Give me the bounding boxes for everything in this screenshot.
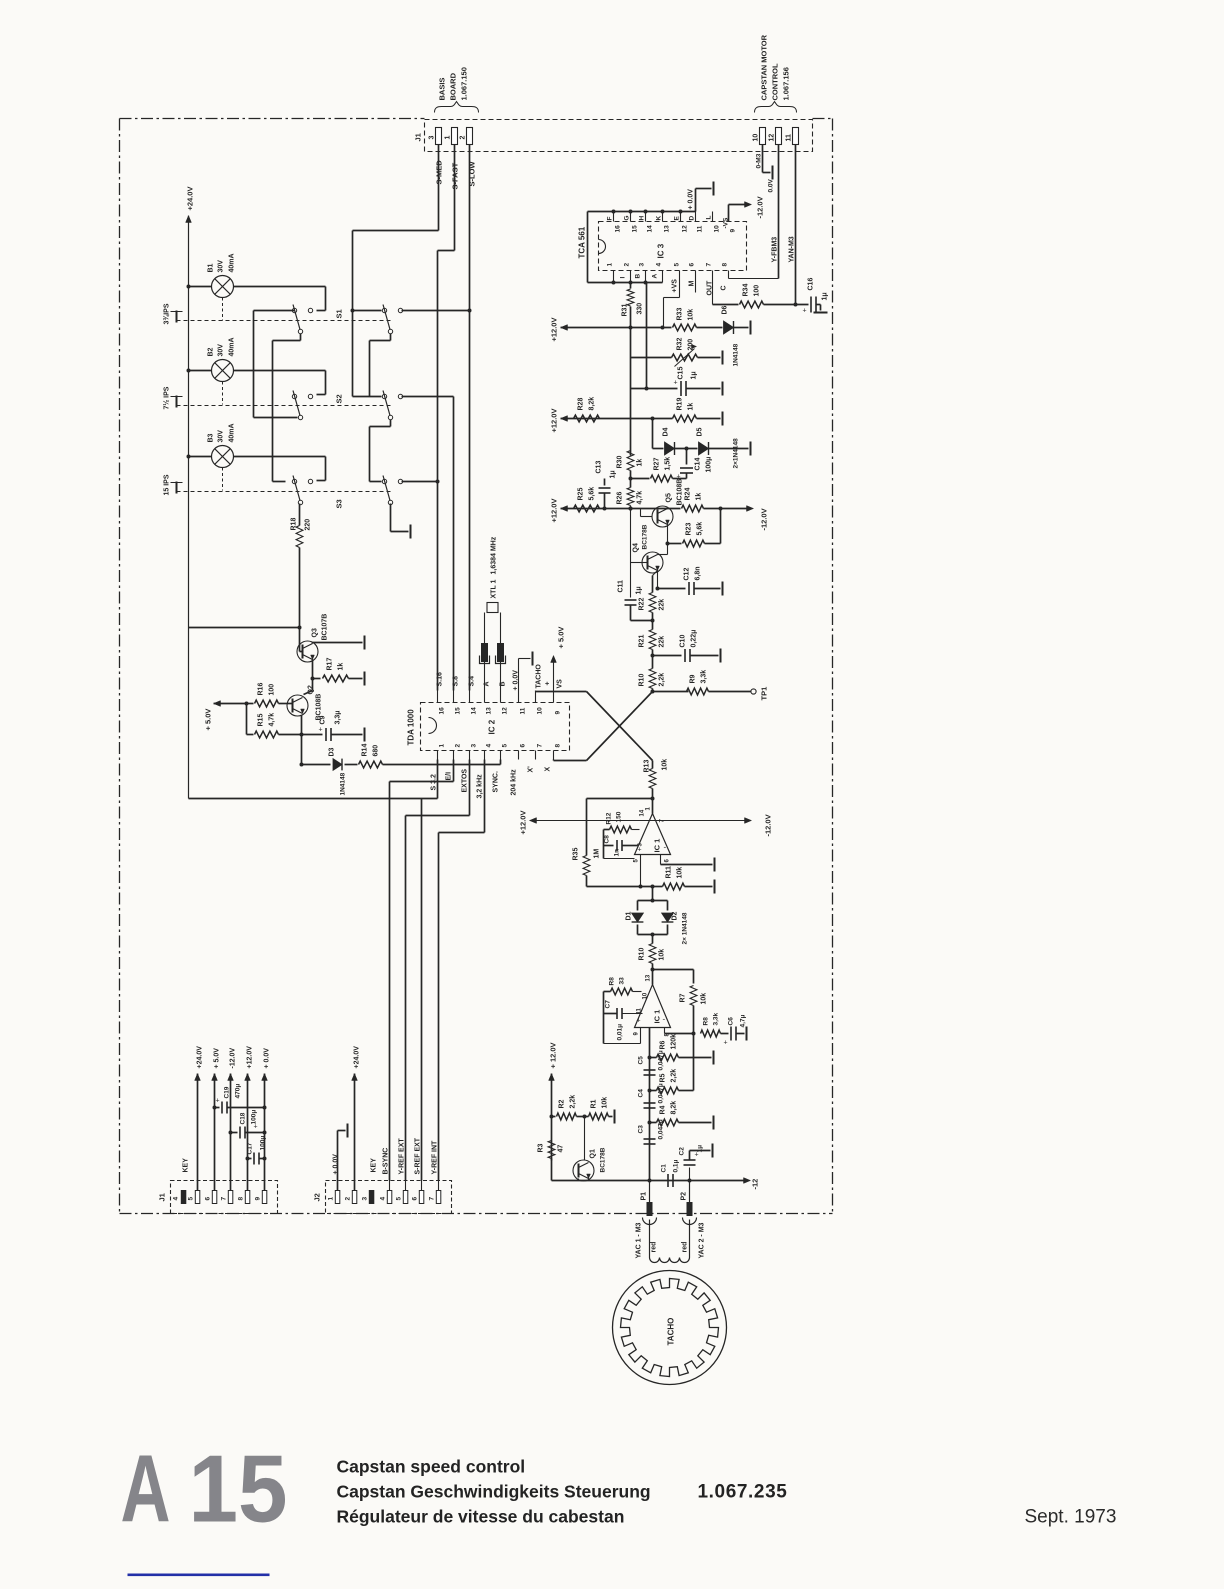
svg-text:R7: R7: [680, 993, 687, 1002]
svg-text:204 kHz: 204 kHz: [511, 769, 518, 796]
svg-text:3: 3: [362, 1197, 369, 1201]
svg-text:A: A: [121, 1436, 171, 1543]
svg-text:33: 33: [619, 977, 626, 985]
svg-text:+12.0V: +12.0V: [247, 1046, 254, 1069]
svg-text:B-SYNC: B-SYNC: [383, 1148, 390, 1175]
svg-text:D3: D3: [329, 747, 336, 756]
svg-text:330: 330: [637, 303, 644, 315]
svg-text:C8: C8: [604, 835, 611, 844]
svg-text:BC108B: BC108B: [677, 479, 684, 506]
svg-text:C18: C18: [240, 1112, 247, 1124]
svg-text:+24.0V: +24.0V: [197, 1046, 204, 1069]
svg-text:C5: C5: [638, 1056, 645, 1065]
svg-text:B: B: [500, 681, 507, 686]
svg-text:0,01μ: 0,01μ: [617, 1024, 624, 1041]
svg-text:C15: C15: [678, 367, 685, 380]
svg-text:+: +: [724, 1040, 728, 1047]
svg-text:+12.0V: +12.0V: [550, 409, 559, 433]
svg-text:+: +: [674, 380, 678, 387]
svg-text:B3: B3: [208, 433, 215, 442]
svg-text:R32: R32: [677, 338, 684, 351]
svg-text:9: 9: [730, 229, 737, 233]
svg-text:R23: R23: [686, 523, 693, 536]
svg-text:7: 7: [537, 744, 544, 748]
svg-text:-12.0V: -12.0V: [230, 1048, 237, 1069]
svg-text:KEY: KEY: [371, 1158, 378, 1173]
svg-text:YAN-M3: YAN-M3: [789, 236, 796, 262]
svg-text:R17: R17: [327, 658, 334, 671]
svg-text:+ 5.0V: + 5.0V: [214, 1048, 221, 1069]
svg-text:10: 10: [643, 992, 649, 999]
svg-text:-: -: [663, 1015, 666, 1024]
svg-text:+: +: [319, 727, 323, 734]
svg-text:6: 6: [412, 1197, 419, 1201]
svg-text:14: 14: [471, 707, 478, 715]
svg-text:12: 12: [769, 134, 776, 142]
svg-text:I: I: [620, 277, 627, 279]
svg-text:R30: R30: [617, 456, 624, 469]
svg-text:B: B: [635, 274, 642, 279]
svg-text:1M: 1M: [594, 849, 601, 859]
svg-text:R15: R15: [258, 714, 265, 727]
svg-text:+: +: [637, 1018, 641, 1025]
svg-text:OUT: OUT: [707, 280, 714, 296]
svg-text:1k: 1k: [637, 459, 644, 467]
svg-text:1N4148: 1N4148: [733, 343, 740, 366]
svg-text:4: 4: [380, 1197, 387, 1201]
svg-text:+12.0V: +12.0V: [550, 318, 559, 342]
svg-text:47: 47: [558, 1145, 565, 1153]
svg-text:VS: VS: [557, 679, 564, 689]
svg-text:+: +: [545, 681, 552, 685]
svg-text:6: 6: [205, 1197, 212, 1201]
svg-text:14: 14: [647, 225, 654, 233]
svg-text:5: 5: [188, 1197, 195, 1201]
svg-text:Y-FBM3: Y-FBM3: [772, 237, 779, 263]
svg-text:R28: R28: [578, 398, 585, 411]
svg-text:470μ: 470μ: [235, 1084, 242, 1099]
svg-text:10k: 10k: [662, 759, 669, 771]
svg-text:C9: C9: [320, 715, 327, 724]
svg-text:2: 2: [624, 263, 631, 267]
svg-text:0-M3: 0-M3: [756, 153, 763, 168]
svg-text:13: 13: [486, 707, 493, 715]
svg-text:Q1: Q1: [590, 1149, 597, 1158]
svg-text:10: 10: [753, 134, 760, 142]
svg-text:R6: R6: [660, 1040, 667, 1049]
svg-text:R13: R13: [644, 760, 651, 773]
svg-text:3,3k: 3,3k: [713, 1012, 720, 1025]
svg-text:3,3k: 3,3k: [701, 670, 708, 684]
svg-text:R22: R22: [639, 598, 646, 611]
svg-text:J2: J2: [313, 1193, 322, 1201]
svg-text:IC 1: IC 1: [653, 1010, 662, 1024]
svg-text:40mA: 40mA: [229, 253, 236, 272]
svg-text:10: 10: [714, 225, 721, 233]
svg-text:-: -: [664, 843, 667, 852]
svg-text:100: 100: [269, 684, 276, 696]
svg-text:15 IPS: 15 IPS: [164, 474, 171, 495]
svg-text:C6: C6: [728, 1017, 735, 1026]
svg-text:3: 3: [429, 136, 436, 140]
svg-text:1k: 1k: [696, 493, 703, 501]
svg-text:Capstan Geschwindigkeits Steue: Capstan Geschwindigkeits Steuerung: [337, 1482, 651, 1502]
svg-text:11: 11: [520, 707, 527, 714]
svg-text:R11: R11: [666, 866, 673, 879]
svg-text:R3: R3: [538, 1143, 545, 1152]
svg-text:S.4: S.4: [469, 676, 476, 687]
svg-text:R9: R9: [690, 674, 697, 683]
svg-text:120k: 120k: [671, 1034, 678, 1050]
svg-text:5: 5: [502, 744, 509, 748]
svg-text:2×1N4148: 2×1N4148: [733, 438, 740, 469]
svg-text:0,047μ: 0,047μ: [658, 1083, 665, 1103]
svg-text:C10: C10: [680, 635, 687, 648]
svg-text:TCA 561: TCA 561: [578, 226, 587, 258]
svg-text:S3: S3: [335, 499, 344, 508]
svg-text:15: 15: [189, 1436, 288, 1543]
svg-text:7: 7: [706, 263, 713, 267]
svg-text:7: 7: [221, 1197, 228, 1201]
svg-text:red: red: [651, 1242, 658, 1253]
svg-text:+: +: [638, 847, 642, 854]
svg-text:Q2: Q2: [308, 685, 315, 694]
svg-text:L: L: [706, 216, 713, 220]
svg-text:5,6k: 5,6k: [589, 487, 596, 501]
svg-text:6: 6: [520, 744, 527, 748]
svg-text:-12: -12: [751, 1179, 760, 1190]
svg-text:15: 15: [632, 225, 639, 233]
svg-text:3¾IPS: 3¾IPS: [163, 303, 171, 324]
svg-text:15: 15: [455, 707, 462, 715]
svg-text:D5: D5: [697, 427, 704, 436]
svg-text:IC 3: IC 3: [657, 243, 666, 258]
svg-text:red: red: [682, 1242, 689, 1253]
svg-text:G: G: [624, 215, 631, 220]
svg-text:+ 0.0V: + 0.0V: [333, 1154, 340, 1175]
svg-text:R5: R5: [660, 1073, 667, 1082]
svg-text:CAPSTAN MOTOR: CAPSTAN MOTOR: [760, 34, 769, 100]
svg-text:R10: R10: [639, 948, 646, 961]
svg-text:+12.0V: +12.0V: [519, 811, 528, 835]
svg-text:D1: D1: [626, 911, 633, 920]
svg-text:B1: B1: [208, 263, 215, 272]
svg-text:E/I: E/I: [446, 772, 453, 781]
svg-text:EXTOS: EXTOS: [462, 769, 469, 793]
svg-text:+ 5.0V: + 5.0V: [557, 627, 566, 649]
svg-text:13: 13: [646, 974, 652, 981]
svg-text:Q3: Q3: [312, 628, 319, 637]
svg-text:R10: R10: [639, 674, 646, 687]
svg-text:5: 5: [674, 263, 681, 267]
svg-text:+24.0V: +24.0V: [186, 187, 195, 211]
svg-text:KEY: KEY: [183, 1158, 190, 1173]
svg-text:Y-REF INT: Y-REF INT: [432, 1140, 439, 1175]
svg-text:SYNC.: SYNC.: [493, 771, 500, 792]
svg-text:R24: R24: [685, 488, 692, 501]
svg-text:7: 7: [429, 1197, 436, 1201]
svg-text:1n: 1n: [614, 849, 621, 857]
svg-text:TDA 1000: TDA 1000: [407, 709, 416, 746]
svg-text:P2: P2: [681, 1192, 688, 1201]
svg-text:+: +: [254, 1124, 258, 1131]
svg-text:0,1μ: 0,1μ: [673, 1159, 680, 1172]
svg-text:D4: D4: [663, 427, 670, 436]
svg-text:220: 220: [305, 519, 312, 531]
svg-text:R8: R8: [703, 1017, 710, 1026]
svg-text:30V: 30V: [218, 260, 225, 273]
svg-text:3: 3: [639, 263, 646, 267]
svg-text:680: 680: [373, 745, 380, 757]
svg-text:100: 100: [754, 285, 761, 297]
svg-text:13: 13: [664, 225, 671, 233]
svg-text:11: 11: [786, 134, 793, 142]
svg-text:4: 4: [486, 744, 493, 748]
svg-text:10k: 10k: [659, 949, 666, 961]
svg-text:1μ: 1μ: [691, 371, 698, 379]
svg-text:R4: R4: [660, 1105, 667, 1114]
svg-text:Régulateur de vitesse du cabes: Régulateur de vitesse du cabestan: [337, 1507, 625, 1527]
svg-text:R19: R19: [677, 398, 684, 411]
svg-text:14: 14: [640, 809, 646, 816]
svg-text:10: 10: [537, 707, 544, 715]
svg-text:J1: J1: [414, 133, 423, 141]
svg-text:0,047μ: 0,047μ: [658, 1119, 665, 1139]
svg-text:1μ: 1μ: [822, 292, 829, 300]
svg-text:Y-REF EXT: Y-REF EXT: [399, 1138, 406, 1175]
svg-text:16: 16: [439, 707, 446, 715]
svg-text:M: M: [689, 281, 696, 287]
svg-text:11: 11: [697, 225, 704, 232]
svg-text:8: 8: [722, 263, 729, 267]
svg-text:TACHO: TACHO: [536, 664, 543, 689]
svg-text:10k: 10k: [602, 1097, 609, 1109]
svg-text:C13: C13: [596, 461, 603, 474]
svg-text:150: 150: [616, 811, 623, 822]
svg-text:+: +: [216, 1098, 220, 1105]
svg-text:-12.0V: -12.0V: [760, 508, 769, 530]
svg-text:Q4: Q4: [633, 543, 640, 552]
svg-text:2: 2: [455, 744, 462, 748]
svg-text:0,22μ: 0,22μ: [691, 630, 698, 648]
svg-text:+ 0.0V: + 0.0V: [688, 189, 695, 210]
svg-text:8,2k: 8,2k: [589, 397, 596, 411]
svg-text:1N4148: 1N4148: [340, 772, 347, 795]
svg-text:C16: C16: [808, 278, 815, 291]
svg-text:12: 12: [502, 707, 509, 715]
svg-text:TP1: TP1: [760, 687, 769, 701]
svg-text:+12.0V: +12.0V: [550, 499, 559, 523]
svg-text:Sept. 1973: Sept. 1973: [1025, 1507, 1117, 1528]
svg-text:X: X: [545, 767, 552, 772]
svg-text:F: F: [607, 217, 614, 221]
svg-text:K: K: [656, 216, 663, 221]
svg-text:+ 0.0V: + 0.0V: [264, 1048, 271, 1069]
svg-text:+ 12.0V: + 12.0V: [549, 1042, 558, 1068]
svg-text:S-REF EXT: S-REF EXT: [415, 1137, 422, 1174]
svg-text:-12.0V: -12.0V: [764, 814, 773, 836]
svg-text:10k: 10k: [688, 309, 695, 321]
svg-text:-12.0V: -12.0V: [756, 196, 765, 218]
svg-text:R12: R12: [606, 812, 613, 824]
svg-text:1,5k: 1,5k: [665, 457, 672, 471]
svg-text:BC107B: BC107B: [322, 614, 329, 641]
svg-text:R27: R27: [654, 458, 661, 471]
svg-text:10k: 10k: [677, 867, 684, 879]
svg-text:1,6384 MHz: 1,6384 MHz: [491, 536, 498, 574]
svg-text:22k: 22k: [659, 636, 666, 648]
svg-text:TACHO: TACHO: [667, 1318, 676, 1346]
svg-text:S1: S1: [335, 309, 344, 318]
svg-text:IC 2: IC 2: [488, 719, 497, 734]
svg-text:IC 1: IC 1: [653, 839, 662, 853]
svg-text:B2: B2: [208, 347, 215, 356]
svg-text:3,2 kHz: 3,2 kHz: [477, 774, 484, 799]
svg-text:200: 200: [688, 339, 695, 351]
svg-text:C4: C4: [638, 1089, 645, 1098]
svg-text:8: 8: [555, 744, 562, 748]
svg-text:8: 8: [238, 1197, 245, 1201]
svg-text:1μ: 1μ: [610, 470, 617, 478]
svg-text:BC178B: BC178B: [600, 1147, 607, 1172]
svg-text:0,047μ: 0,047μ: [658, 1050, 665, 1070]
svg-text:1: 1: [445, 136, 452, 140]
svg-text:1k: 1k: [338, 663, 345, 671]
svg-text:C7: C7: [605, 1000, 612, 1009]
svg-text:1μ: 1μ: [636, 586, 643, 594]
svg-text:BOARD: BOARD: [449, 72, 458, 100]
svg-text:1: 1: [328, 1197, 335, 1201]
svg-text:S2: S2: [335, 394, 344, 403]
svg-text:H: H: [639, 216, 646, 221]
svg-text:4: 4: [173, 1197, 180, 1201]
svg-text:C1: C1: [661, 1164, 668, 1173]
svg-text:2,2k: 2,2k: [659, 673, 666, 687]
svg-text:7½ IPS: 7½ IPS: [163, 386, 171, 409]
svg-text:Q5: Q5: [666, 493, 673, 502]
svg-text:E: E: [674, 216, 681, 221]
svg-text:C19: C19: [224, 1086, 231, 1098]
svg-text:2,2k: 2,2k: [671, 1069, 678, 1083]
svg-text:YAC 2 - M3: YAC 2 - M3: [699, 1222, 706, 1258]
svg-text:1μ: 1μ: [697, 1145, 704, 1153]
svg-text:+ 5.0V: + 5.0V: [204, 709, 213, 731]
svg-text:C17: C17: [247, 1142, 254, 1154]
svg-text:5: 5: [396, 1197, 403, 1201]
svg-text:5,6k: 5,6k: [697, 522, 704, 536]
svg-text:2× 1N4148: 2× 1N4148: [682, 912, 689, 944]
svg-text:C12: C12: [684, 568, 691, 581]
svg-text:R2: R2: [559, 1099, 566, 1108]
svg-text:X': X': [528, 766, 535, 773]
svg-text:R14: R14: [362, 744, 369, 757]
svg-text:9: 9: [255, 1197, 262, 1201]
svg-text:2: 2: [345, 1197, 352, 1201]
svg-text:3,3μ: 3,3μ: [335, 710, 342, 724]
svg-text:100μ: 100μ: [251, 1110, 258, 1125]
svg-text:1: 1: [439, 744, 446, 748]
svg-text:R26: R26: [617, 492, 624, 505]
svg-text:4,7k: 4,7k: [269, 713, 276, 727]
svg-text:1: 1: [607, 263, 614, 267]
svg-text:D6: D6: [722, 305, 729, 314]
svg-text:R31: R31: [622, 304, 629, 317]
svg-text:10k: 10k: [701, 993, 708, 1005]
svg-text:C2: C2: [679, 1147, 686, 1156]
svg-text:+24.0V: +24.0V: [354, 1046, 361, 1069]
svg-text:R33: R33: [677, 308, 684, 321]
svg-text:1.067.235: 1.067.235: [698, 1482, 788, 1503]
svg-text:R34: R34: [743, 284, 750, 297]
svg-text:BC178B: BC178B: [642, 524, 649, 549]
svg-text:4: 4: [656, 263, 663, 267]
svg-text:40mA: 40mA: [229, 423, 236, 442]
svg-text:XTL 1: XTL 1: [491, 579, 498, 598]
svg-text:4,7μ: 4,7μ: [740, 1014, 747, 1027]
svg-text:16: 16: [615, 225, 622, 233]
svg-text:Capstan speed control: Capstan speed control: [337, 1457, 526, 1477]
svg-text:2,2k: 2,2k: [570, 1095, 577, 1109]
svg-text:12: 12: [682, 225, 689, 233]
svg-text:+: +: [803, 308, 807, 315]
svg-text:4,7k: 4,7k: [637, 491, 644, 505]
svg-text:J1: J1: [158, 1193, 167, 1201]
svg-text:R35: R35: [573, 848, 580, 861]
svg-text:D2: D2: [672, 911, 679, 920]
svg-text:D: D: [689, 216, 696, 221]
svg-text:A: A: [652, 274, 659, 279]
svg-text:1.067.150: 1.067.150: [460, 67, 469, 100]
svg-text:1.067.156: 1.067.156: [782, 67, 791, 100]
svg-text:2: 2: [460, 136, 467, 140]
svg-text:A: A: [484, 681, 491, 686]
svg-text:40mA: 40mA: [229, 337, 236, 356]
svg-text:YAC 1 - M3: YAC 1 - M3: [636, 1222, 643, 1258]
svg-text:30V: 30V: [218, 430, 225, 443]
svg-text:+VS: +VS: [672, 279, 679, 293]
svg-text:CONTROL: CONTROL: [771, 63, 780, 100]
svg-text:R1: R1: [591, 1099, 598, 1108]
svg-text:1k: 1k: [688, 403, 695, 411]
svg-text:C: C: [721, 285, 728, 290]
svg-text:C3: C3: [638, 1125, 645, 1134]
svg-text:0.0V: 0.0V: [768, 178, 775, 192]
svg-text:BASIS: BASIS: [438, 78, 447, 101]
svg-text:8,2k: 8,2k: [671, 1101, 678, 1115]
svg-text:R21: R21: [639, 635, 646, 648]
svg-text:R8: R8: [609, 977, 616, 986]
svg-text:C14: C14: [695, 458, 702, 471]
svg-text:30V: 30V: [218, 344, 225, 357]
svg-text:R25: R25: [578, 488, 585, 501]
svg-text:3: 3: [471, 744, 478, 748]
svg-text:9: 9: [555, 711, 562, 715]
svg-text:R16: R16: [258, 683, 265, 696]
svg-text:100μ: 100μ: [706, 457, 713, 473]
svg-text:C11: C11: [618, 580, 625, 593]
svg-text:6,8n: 6,8n: [695, 566, 702, 580]
svg-text:R18: R18: [291, 518, 298, 531]
svg-text:22k: 22k: [659, 599, 666, 611]
svg-text:S.16: S.16: [437, 672, 444, 687]
svg-text:S.8: S.8: [453, 676, 460, 687]
svg-text:P1: P1: [641, 1192, 648, 1201]
svg-text:6: 6: [689, 263, 696, 267]
svg-text:100μ: 100μ: [260, 1136, 267, 1151]
